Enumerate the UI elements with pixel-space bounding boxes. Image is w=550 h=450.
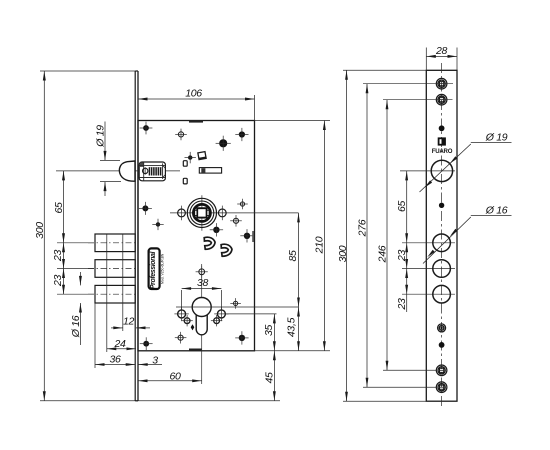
dimension 60 (backset): [138, 371, 202, 383]
cylinder center extension line: [211, 306, 299, 308]
dimension 28 (strip width): [426, 45, 457, 70]
svg-text:45: 45: [264, 372, 276, 384]
svg-text:Ø 16: Ø 16: [485, 205, 508, 217]
dimension 85 (hub to cylinder): [287, 213, 300, 307]
deadbolt bar 3: [95, 285, 135, 303]
dimension 43,5: [286, 307, 300, 351]
svg-text:28: 28: [435, 45, 448, 57]
rivet dot right: [244, 233, 250, 239]
bolt 1 centerline: [57, 242, 94, 244]
cylinder screw hole left upper: [174, 307, 188, 321]
svg-text:300: 300: [337, 245, 349, 262]
dimension 300 left (faceplate height): [34, 71, 46, 401]
dimension 35: [263, 314, 276, 351]
screw hole top 1: [436, 78, 447, 89]
diamond mark left of keyhole: [191, 324, 195, 330]
strip faceplate front view: [426, 70, 457, 401]
hub square spindle: [170, 195, 299, 231]
washer hole: [438, 324, 446, 332]
rivet dot large top: [219, 139, 227, 147]
svg-text:Ø 19: Ø 19: [95, 125, 107, 148]
dimension 38 (cylinder fixing): [182, 277, 222, 310]
svg-text:35: 35: [263, 325, 275, 337]
slide bar: [199, 168, 221, 174]
deadbolt bar 1: [95, 234, 135, 252]
target above cylinder: [199, 269, 205, 275]
rivet dot bottom right: [239, 335, 245, 341]
target mark top: [178, 132, 183, 137]
rivet dot bottom near faceplate: [143, 341, 149, 347]
svg-text:85: 85: [287, 250, 299, 262]
dimension 23 upper left: [52, 243, 65, 269]
bottom mounting slot notch: [189, 349, 202, 351]
leader line D16: [423, 205, 512, 264]
svg-text:210: 210: [314, 236, 326, 254]
svg-text:23: 23: [52, 275, 64, 288]
dimension 246: [377, 100, 453, 371]
dimension 65 left (latch to bolt): [53, 171, 65, 243]
target mark right of hub lower: [233, 218, 238, 223]
latch bolt head: [119, 161, 135, 181]
dimension 12: [111, 316, 150, 330]
svg-text:Ø 16: Ø 16: [70, 315, 82, 338]
dimension D19 latch diameter: [95, 122, 122, 197]
bolt 2 centerline: [57, 268, 94, 270]
svg-text:300: 300: [34, 222, 46, 239]
extension line x=95 below bars: [94, 303, 96, 368]
faceplate top extension line: [40, 70, 135, 72]
svg-text:Mod. V250-6L/R.BN: Mod. V250-6L/R.BN: [160, 253, 164, 284]
dimension 23 lower left: [52, 269, 65, 295]
rivet dot strip mid: [439, 203, 444, 208]
dimension 106 (body width): [138, 88, 255, 121]
bolt hole 1 front: [402, 234, 455, 252]
dimension 45: [264, 351, 276, 401]
bolt hole 2 front: [402, 260, 455, 278]
rivet dot strip upper: [439, 125, 445, 131]
spring clip 1: [204, 237, 215, 250]
bolt 3 centerline: [57, 293, 94, 295]
dimension 3 (faceplate thickness): [138, 354, 162, 366]
spring clip 2: [221, 244, 232, 257]
svg-text:FUARO: FUARO: [432, 148, 453, 155]
svg-text:106: 106: [185, 88, 202, 100]
small rect A: [183, 161, 187, 167]
screw hole bottom 1: [436, 365, 447, 376]
extension line x=122.8: [122, 234, 124, 331]
dimension 24: [107, 338, 136, 350]
target mark right of hub upper: [240, 202, 244, 206]
rivet dot strip lower: [439, 342, 445, 348]
svg-text:38: 38: [197, 277, 209, 289]
small dot mid: [188, 155, 192, 159]
hub side hole right: [218, 206, 226, 221]
dimension 23 right lower: [396, 269, 408, 313]
faceplate (edge view): [135, 71, 138, 401]
small rect B: [183, 178, 187, 184]
screw hole top 2: [436, 94, 447, 105]
svg-text:23: 23: [396, 298, 408, 311]
svg-text:23: 23: [52, 250, 64, 263]
leader line D19: [420, 132, 512, 193]
latch centerline: [56, 170, 180, 172]
svg-text:Ø 19: Ø 19: [485, 132, 508, 144]
faceplate bottom extension line: [40, 400, 280, 402]
svg-text:23: 23: [396, 250, 408, 263]
dimension 300 right view: [337, 70, 427, 401]
latch tail assembly: [139, 162, 165, 181]
svg-text:3: 3: [152, 354, 158, 366]
rivet dot left mid: [142, 205, 148, 211]
rivet dot top right: [239, 131, 245, 137]
svg-text:60: 60: [169, 371, 181, 383]
dimension 210 (body height): [255, 121, 331, 351]
svg-text:36: 36: [109, 353, 121, 365]
hub side hole left: [178, 206, 186, 221]
svg-text:246: 246: [377, 245, 389, 263]
lock body outline: [138, 121, 255, 351]
cylinder screw hole right upper: [214, 307, 228, 321]
cylinder screw hole right lower: [211, 315, 222, 326]
dimension 23 right upper: [396, 243, 408, 269]
svg-text:65: 65: [53, 202, 65, 214]
dimension 276: [357, 84, 454, 388]
small dot left mid: [156, 222, 160, 226]
tilted square detent: [198, 152, 206, 160]
svg-text:43,5: 43,5: [286, 317, 298, 337]
extension line x=106.8: [106, 234, 108, 352]
svg-text:24: 24: [113, 338, 126, 350]
bolt hole 3 front: [402, 285, 455, 303]
Professional label: [149, 248, 160, 289]
screw hole bottom 2: [436, 382, 447, 393]
svg-text:Professional: Professional: [150, 250, 157, 289]
dimension 36: [95, 353, 135, 366]
cylinder screw hole left lower: [181, 315, 192, 326]
top mounting slot notch: [189, 120, 203, 122]
rivet dot below hub: [213, 227, 219, 233]
FUARO logo square: [438, 137, 446, 145]
target mid right: [234, 301, 238, 305]
target left bottom: [178, 335, 183, 340]
M5 hole extension line: [225, 313, 277, 315]
strip vertical centerline: [441, 63, 443, 408]
svg-text:12: 12: [123, 316, 135, 328]
edge marking text: [252, 231, 254, 242]
svg-text:276: 276: [357, 219, 369, 237]
svg-text:65: 65: [396, 201, 408, 213]
rivet dot top left: [143, 125, 149, 131]
dimension D16 bolt diameter: [70, 272, 82, 345]
dimension 65 right view: [396, 171, 408, 243]
deadbolt bar 2: [95, 260, 135, 278]
latch hole D19 front: [400, 160, 455, 181]
euro cylinder keyhole: [176, 264, 211, 384]
